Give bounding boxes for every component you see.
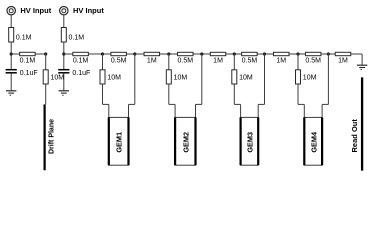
- svg-text:10M: 10M: [107, 75, 121, 82]
- svg-text:1M: 1M: [213, 57, 223, 64]
- svg-text:GEM4: GEM4: [309, 131, 318, 153]
- svg-text:GEM1: GEM1: [115, 132, 124, 153]
- svg-text:GEM3: GEM3: [246, 132, 255, 153]
- svg-text:0.1M: 0.1M: [20, 57, 36, 64]
- svg-text:10M: 10M: [174, 75, 188, 82]
- svg-text:0.5M: 0.5M: [111, 57, 127, 64]
- svg-text:0.1uF: 0.1uF: [72, 70, 90, 77]
- svg-text:0.1M: 0.1M: [73, 57, 89, 64]
- svg-text:0.5M: 0.5M: [305, 57, 321, 64]
- svg-text:HV Input: HV Input: [73, 6, 104, 15]
- svg-text:0.5M: 0.5M: [178, 57, 194, 64]
- svg-text:HV Input: HV Input: [20, 6, 51, 15]
- svg-text:1M: 1M: [276, 57, 286, 64]
- svg-text:Drift Plane: Drift Plane: [48, 119, 55, 154]
- svg-text:10M: 10M: [239, 75, 253, 82]
- svg-text:1M: 1M: [147, 57, 157, 64]
- svg-text:Read Out: Read Out: [350, 119, 359, 153]
- svg-text:0.1M: 0.1M: [16, 34, 32, 41]
- svg-text:0.1M: 0.1M: [69, 34, 85, 41]
- svg-text:10M: 10M: [303, 75, 317, 82]
- svg-text:0.5M: 0.5M: [242, 57, 258, 64]
- svg-text:0.1uF: 0.1uF: [20, 70, 38, 77]
- svg-text:10M: 10M: [51, 75, 65, 82]
- svg-text:GEM2: GEM2: [181, 132, 190, 153]
- svg-text:1M: 1M: [338, 57, 348, 64]
